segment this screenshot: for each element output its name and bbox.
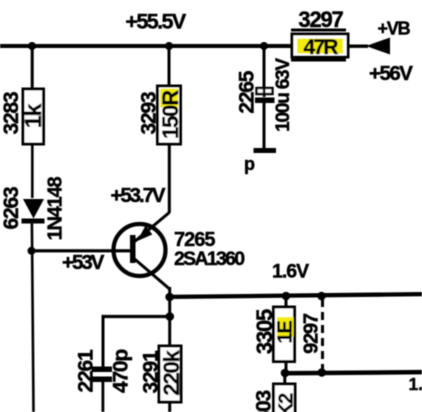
terminal bar p [254,148,277,153]
dashed wire 9297 [301,299,323,369]
svg-text:1.1V: 1.1V [409,374,422,394]
svg-text:2261: 2261 [75,349,98,392]
svg-text:2265: 2265 [236,70,259,113]
resistor R3293 150R [138,86,184,144]
resistor R3305 1E [252,307,297,362]
wire node to R3305 [285,296,288,307]
node junction to 470p branch [166,312,175,321]
node collector junction [165,293,174,302]
svg-text:3297: 3297 [298,7,343,32]
wire diode down left edge to bottom [31,223,35,412]
transistor Q7265 2SA1360 [114,213,246,290]
wire top rail down to R3293 [168,46,171,86]
wire bottom rail [285,370,422,376]
capacitor C2265 100u 63V [236,58,295,148]
label 3297 [298,7,343,32]
svg-text:1k: 1k [20,104,46,129]
svg-text:220k: 220k [159,349,184,395]
wire top +55.5V rail [0,44,293,48]
diode D6263 1N4148 [0,176,67,240]
label p [244,154,255,174]
wire R3305 to bottom node [285,362,288,374]
svg-text:1.6V: 1.6V [272,261,309,283]
label +56V [369,62,413,85]
svg-text:9297: 9297 [301,313,323,354]
label +53V [62,251,105,274]
label +55.5V [125,10,186,34]
svg-text:p: p [244,154,255,174]
svg-text:3303: 3303 [253,391,276,412]
node junction top-middle [165,42,173,50]
wire R3283 to diode [31,144,34,198]
node bottom rail / R3305 [281,369,290,378]
wire collector node down to R3291 [168,297,171,346]
label +VB [378,19,411,39]
svg-text:470p: 470p [110,350,133,393]
svg-text:47R: 47R [303,36,338,59]
svg-text:3305: 3305 [252,309,277,354]
resistor R3303 1K2 (clipped at bottom) [253,384,298,412]
capacitor C2261 470p [75,349,133,393]
wire R3293 down to emitter bend [168,144,171,213]
resistor R3291 220k [140,346,185,402]
wire C2261 to bottom edge [102,382,105,412]
wire R3297 to arrow [348,45,368,48]
svg-text:2SA1360: 2SA1360 [174,248,245,270]
wire 1.6V rail [170,292,422,299]
node junction top-right (cap 2265 tap) [260,42,268,50]
svg-text:150R: 150R [158,90,183,139]
resistor R3283 1k [0,89,46,144]
svg-text:+55.5V: +55.5V [125,10,186,34]
svg-text:1N4148: 1N4148 [45,176,67,240]
wire base of transistor [31,249,132,252]
node 1.6V rail / R3305 [282,292,291,301]
label +53.7V [111,184,166,207]
svg-text:100u 63V: 100u 63V [273,58,294,132]
arrow +VB [366,38,390,55]
resistor R3297 47R [291,29,348,62]
wire collector down to node [168,287,171,299]
svg-text:+53.7V: +53.7V [111,184,166,207]
label 1.1 (clipped) [409,374,422,394]
wire from top rail down to R3283 [31,46,34,89]
svg-text:+VB: +VB [378,19,411,39]
wire node down to C2265 [263,46,266,88]
node bottom rail / 9297 [318,368,327,377]
node junction top-left [28,42,36,50]
wire R3291 to bottom edge [168,402,171,412]
node junction diode/base [28,247,36,255]
label 1.6V [272,261,309,283]
svg-text:1E: 1E [275,321,297,344]
node 1.6V rail / dashed 9297 [317,292,326,301]
svg-text:+53V: +53V [62,251,105,274]
svg-text:+56V: +56V [369,62,413,85]
svg-text:1K2: 1K2 [276,393,298,412]
wire left to C2261 [102,315,170,367]
wire node down to R3303 [283,373,286,384]
svg-text:6263: 6263 [0,187,23,229]
